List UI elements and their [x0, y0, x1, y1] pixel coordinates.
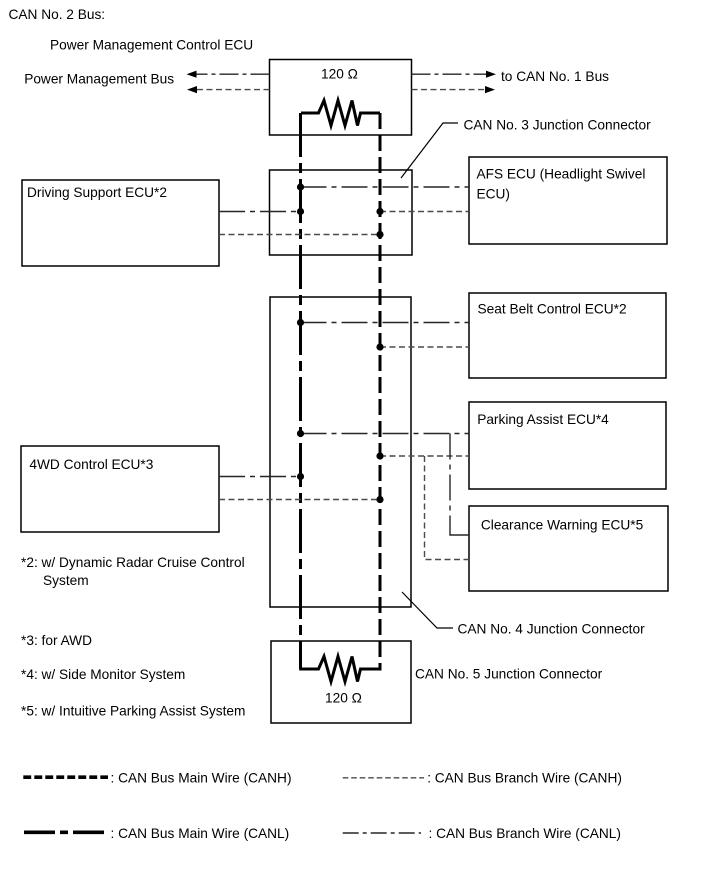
node CANL tap at junction 4 for Seat Belt [297, 319, 304, 326]
wire CANL stub to CAN No. 1 Bus (right arrow) [412, 73, 488, 75]
box CAN No. 4 Junction Connector [270, 297, 411, 607]
svg-text:: CAN Bus Main Wire (CANL): : CAN Bus Main Wire (CANL) [111, 826, 290, 841]
svg-text:CAN No. 5 Junction Connector: CAN No. 5 Junction Connector [415, 666, 603, 681]
svg-text:ECU): ECU) [477, 186, 510, 201]
wire CANL stub to Power Management Bus (left arrow) [196, 73, 270, 75]
arrowhead CANL left [187, 71, 197, 78]
node CANH tap at junction 4 for Seat Belt [376, 343, 383, 350]
wire CANH branch to Seat Belt Control ECU [380, 346, 469, 348]
svg-text:CAN No. 3 Junction Connector: CAN No. 3 Junction Connector [464, 117, 652, 132]
svg-text:*3: for AWD: *3: for AWD [21, 633, 92, 648]
node CANL tap at junction 4 for Parking Assist [297, 430, 304, 437]
svg-text:Clearance Warning ECU*5: Clearance Warning ECU*5 [481, 518, 644, 533]
svg-text:4WD Control ECU*3: 4WD Control ECU*3 [29, 457, 153, 472]
box AFS ECU [469, 157, 667, 244]
svg-text:120 Ω: 120 Ω [325, 691, 362, 706]
svg-text:120 Ω: 120 Ω [321, 66, 358, 81]
resistor R1 120 ohm [301, 101, 380, 126]
wire CANL branch from 4WD Control ECU [219, 476, 301, 478]
resistor R2 120 ohm [299, 657, 381, 682]
svg-text:AFS ECU (Headlight Swivel: AFS ECU (Headlight Swivel [477, 166, 646, 181]
node CANL tap at junction 4 for 4WD [297, 473, 304, 480]
box U1 Power Management Control ECU (terminator) [270, 60, 412, 136]
wire CANL branch to AFS ECU [301, 186, 470, 188]
svg-text:Parking Assist ECU*4: Parking Assist ECU*4 [477, 412, 609, 427]
svg-text:Seat Belt Control ECU*2: Seat Belt Control ECU*2 [478, 301, 627, 316]
box Driving Support ECU [22, 180, 219, 266]
node CANH tap at junction 3 for AFS [376, 208, 383, 215]
svg-text:: CAN Bus Branch Wire (CANH): : CAN Bus Branch Wire (CANH) [427, 771, 622, 786]
wire CANL branch to Clearance Warning ECU (vertical drop) [449, 434, 451, 536]
svg-text:CAN No. 2 Bus:: CAN No. 2 Bus: [9, 7, 106, 22]
box Clearance Warning ECU [469, 506, 668, 591]
node CANL tap at junction 3 for AFS [297, 183, 304, 190]
svg-text:*5: w/ Intuitive Parking Assis: *5: w/ Intuitive Parking Assist System [21, 703, 245, 718]
svg-text:Power Management Bus: Power Management Bus [24, 72, 174, 87]
wire CANH branch from 4WD Control ECU [219, 499, 380, 501]
wire CANH main bus (right vertical, x=380) [379, 113, 382, 669]
legend sample CAN Bus Branch Wire CANH [343, 777, 424, 779]
svg-text:: CAN Bus Main Wire (CANH): : CAN Bus Main Wire (CANH) [111, 770, 292, 785]
legend sample CAN Bus Branch Wire CANL [343, 832, 421, 834]
wire CANH branch to Parking Assist ECU [380, 455, 469, 457]
node CANH tap at junction 4 for Parking Assist [376, 452, 383, 459]
leader line to CAN No. 4 Junction Connector label [402, 592, 453, 628]
legend sample CAN Bus Main Wire CANL [24, 830, 107, 834]
wire CANL branch into Clearance Warning ECU (horizontal stub) [449, 534, 469, 536]
svg-text:CAN No. 4 Junction Connector: CAN No. 4 Junction Connector [458, 621, 646, 636]
box 4WD Control ECU [21, 446, 219, 532]
svg-text:System: System [43, 573, 89, 588]
svg-text:to CAN No. 1 Bus: to CAN No. 1 Bus [501, 69, 609, 84]
legend sample CAN Bus Main Wire CANH [23, 775, 108, 779]
box CAN No. 3 Junction Connector [270, 170, 413, 255]
wire CANL main bus (left vertical, x=300.5) [299, 113, 302, 669]
arrowhead CANH right [485, 86, 495, 93]
node CANH tap at junction 4 for 4WD [376, 496, 383, 503]
wire CANH branch to AFS ECU [380, 211, 469, 213]
svg-text:Driving Support ECU*2: Driving Support ECU*2 [27, 185, 167, 200]
wire CANL branch to Parking Assist ECU [301, 433, 470, 435]
wire CANH branch to Clearance Warning ECU (vertical drop) [425, 456, 470, 560]
box Seat Belt Control ECU [469, 293, 666, 378]
node CANH tap at junction 3 for Driving Support [376, 231, 383, 238]
wire CANH stub to Power Management Bus (left arrow) [196, 89, 270, 91]
box CAN No. 5 Junction Connector (terminator) [271, 641, 411, 723]
svg-text:: CAN Bus Branch Wire (CANL): : CAN Bus Branch Wire (CANL) [429, 826, 621, 841]
wire CANH stub to CAN No. 1 Bus (right arrow) [412, 89, 487, 91]
svg-text:*4: w/ Side Monitor System: *4: w/ Side Monitor System [21, 667, 185, 682]
arrowhead CANH left [187, 86, 197, 93]
leader line to CAN No. 3 Junction Connector label [401, 123, 458, 178]
box Parking Assist ECU [469, 402, 666, 489]
wire CANL branch from Driving Support ECU [219, 211, 301, 213]
wire CANH branch from Driving Support ECU [219, 234, 380, 236]
wire CANL branch to Seat Belt Control ECU [301, 322, 470, 324]
svg-text:Power Management Control ECU: Power Management Control ECU [50, 38, 253, 53]
svg-text:*2: w/ Dynamic Radar Cruise Co: *2: w/ Dynamic Radar Cruise Control [21, 555, 245, 570]
node CANL tap at junction 3 for Driving Support [297, 208, 304, 215]
arrowhead CANL right [486, 71, 496, 78]
